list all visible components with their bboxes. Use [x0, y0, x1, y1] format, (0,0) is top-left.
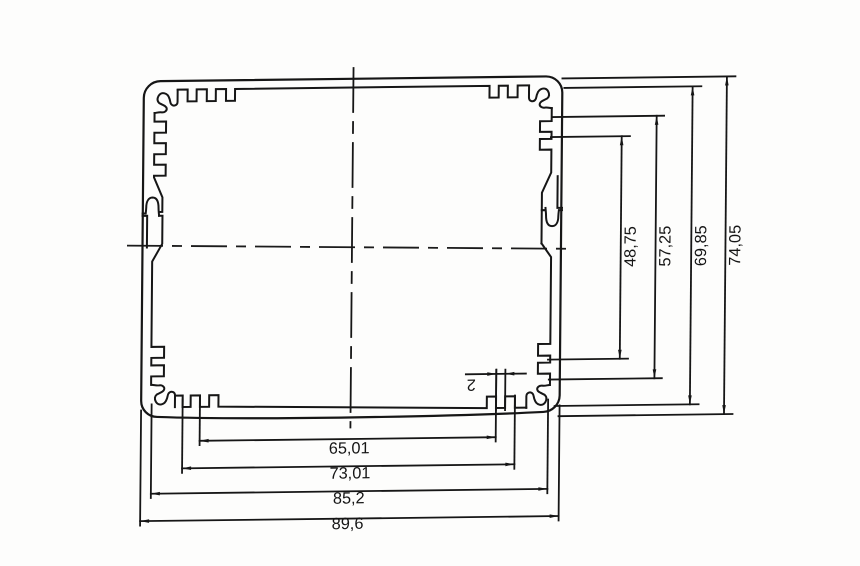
svg-text:57,25: 57,25 [656, 226, 674, 267]
dimension 85,2 arrows [151, 487, 548, 495]
right inner wall top with teeth [539, 108, 552, 243]
dimension 57,25 extension lines [549, 116, 664, 380]
dimension 69,85 arrows [688, 86, 694, 404]
svg-text:69,85: 69,85 [692, 225, 710, 266]
dimension 57,25 arrows [653, 116, 659, 379]
svg-text:89,6: 89,6 [332, 515, 364, 533]
dimension 89,6 extension lines [140, 405, 560, 525]
dimension 85,2 extension lines [151, 400, 548, 498]
dimension 2 line [466, 373, 526, 376]
dimension 69,85 line [690, 86, 693, 404]
inner top edge with teeth [178, 85, 530, 101]
dimension 48,75 line [620, 136, 622, 359]
outer profile [141, 76, 562, 420]
dimension 48,75 extension lines [548, 136, 630, 359]
dimension 73,01 line [182, 464, 514, 468]
dimension 74,05 arrows [722, 76, 729, 414]
dimension 73,01 arrows [182, 462, 514, 470]
dimension 57,25 line [654, 116, 656, 379]
screw boss bottom-left [152, 385, 175, 408]
svg-text:65,01: 65,01 [329, 439, 370, 457]
svg-text:74,05: 74,05 [726, 225, 744, 266]
svg-text:48,75: 48,75 [621, 226, 639, 267]
dimension 48,75 arrows [618, 136, 624, 359]
right inner wall bottom with teeth [538, 243, 551, 385]
screw boss top-left [155, 90, 178, 113]
dimension 74,05 extension lines [558, 76, 735, 416]
dimension 89,6 arrows [140, 514, 559, 523]
left mid screw channel omega [142, 197, 159, 247]
centerline vertical [350, 68, 353, 428]
dimension 2 arrows [487, 372, 514, 376]
left inner wall bottom with teeth [151, 216, 165, 385]
dimension 74,05 line [724, 76, 727, 414]
inner bottom edge with teeth [175, 391, 527, 412]
dimension 89,6 line [140, 516, 559, 521]
dimension 65,01 extension lines [200, 370, 497, 445]
svg-text:73,01: 73,01 [330, 464, 371, 482]
screw boss top-right [529, 86, 552, 109]
dimension 73,01 extension lines [182, 395, 515, 472]
dimension 69,85 extension lines [555, 86, 702, 406]
svg-text:2: 2 [467, 375, 476, 393]
svg-text:85,2: 85,2 [333, 489, 365, 507]
dimension 65,01 line [200, 437, 496, 441]
dimension 2 extension lines [496, 370, 505, 411]
centerline horizontal [127, 246, 570, 249]
dimension 85,2 line [151, 489, 548, 494]
right mid screw channel omega [542, 176, 563, 226]
screw boss bottom-right [526, 385, 549, 408]
left inner wall top with teeth [154, 113, 166, 212]
dimension 65,01 arrows [200, 435, 496, 442]
